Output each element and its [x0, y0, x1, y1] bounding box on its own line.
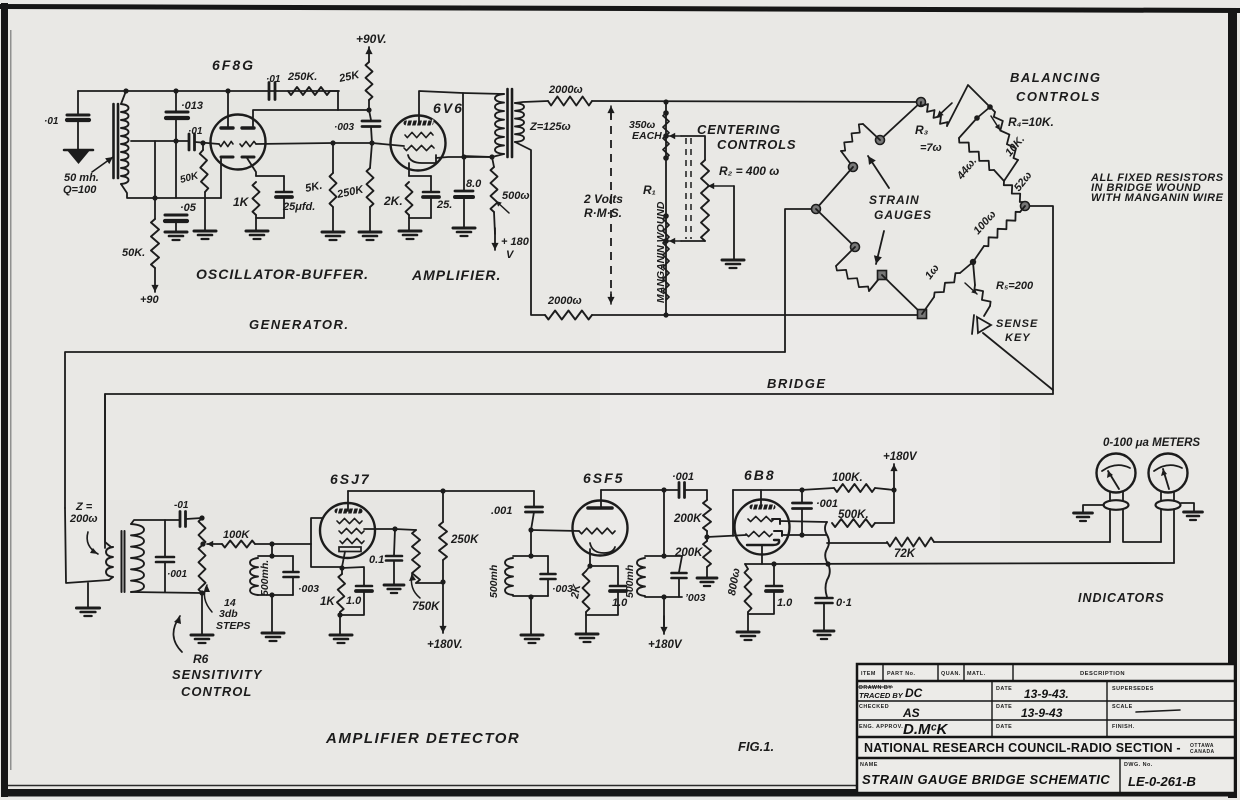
- node diode1 / .001C: [799, 532, 804, 537]
- svg-text:6V6: 6V6: [433, 100, 464, 116]
- label 14: [224, 597, 236, 609]
- svg-text:1.0: 1.0: [346, 595, 362, 607]
- value label 2000 ohm bottom: [547, 295, 582, 307]
- arrow pointing to 750K: [409, 574, 420, 598]
- arrow R4 wiper: [991, 116, 1000, 130]
- svg-text:+90V.: +90V.: [356, 32, 387, 46]
- svg-text:ITEM: ITEM: [861, 671, 876, 677]
- svg-text:·01: ·01: [188, 126, 203, 137]
- node gauge2 lower: [878, 271, 887, 280]
- label FIG.1.: [738, 739, 774, 754]
- node 250K bottom: [440, 579, 445, 584]
- svg-text:-01: -01: [174, 500, 189, 511]
- resistor R6 sensitivity pot: [199, 518, 206, 593]
- svg-text:SENSITIVITY: SENSITIVITY: [172, 667, 263, 682]
- node R5 junction: [970, 259, 976, 265]
- node tank1 bottom: [269, 592, 274, 597]
- node 1.0 top (6B8): [771, 561, 776, 566]
- inductor 500mh tank3: [637, 558, 645, 596]
- sheet border frame bottom: [1, 786, 1237, 797]
- ground M2: [1184, 512, 1203, 520]
- arrow +180V (6B8): [890, 464, 897, 488]
- node right grid / 5K: [330, 140, 335, 145]
- svg-text:’003: ’003: [685, 592, 706, 604]
- capacitor .001 (coupling A): [526, 507, 543, 512]
- svg-text:GAUGES: GAUGES: [874, 208, 932, 222]
- svg-text:D.MᶜK: D.MᶜK: [903, 721, 949, 738]
- field TRACED BY: [859, 691, 904, 700]
- wire bridge right output down: [1025, 206, 1053, 394]
- value label 200K 2: [674, 547, 703, 559]
- title block table: [857, 664, 1235, 793]
- svg-text:NATIONAL RESEARCH COUNCIL-RADI: NATIONAL RESEARCH COUNCIL-RADIO SECTION …: [864, 741, 1181, 755]
- node tank2 bottom: [528, 594, 533, 599]
- svg-text:+180V: +180V: [648, 639, 683, 651]
- svg-text:200K: 200K: [673, 513, 702, 525]
- section label AMPLIFIER.: [411, 267, 501, 283]
- wire grid node to 6V6: [372, 143, 404, 146]
- wire .001C bottom lead: [801, 509, 803, 536]
- value label 250K.: [287, 71, 317, 83]
- wire tank3 supply lead: [663, 597, 665, 626]
- wire cathode rail to meter 2: [774, 563, 1174, 564]
- wire 6F8G left plate lead: [227, 91, 229, 128]
- svg-text:R₅=200: R₅=200: [996, 280, 1034, 292]
- node 6V6 grid: [369, 140, 374, 145]
- capacitor .003 tank2: [541, 574, 556, 579]
- resistor 750K: [412, 530, 420, 583]
- wire tank1 top rail: [258, 555, 293, 557]
- wire 25 bottom: [430, 197, 432, 218]
- 6SF5 cathode: [590, 543, 615, 553]
- wire cathode rail (6B8): [745, 563, 774, 565]
- resistor 200K (grid stopper): [703, 500, 711, 531]
- wire 2K to ground (6SF5): [585, 612, 587, 633]
- title NRC: [864, 741, 1181, 755]
- ground below T3: [76, 608, 99, 616]
- label Q=100: [63, 184, 97, 196]
- entry date 2: [1021, 706, 1063, 720]
- label 52 ohm: [1012, 170, 1035, 194]
- node 6SF5 cathode: [587, 563, 592, 568]
- arrow R2 wiper: [708, 183, 734, 189]
- label GAUGES: [874, 208, 932, 222]
- wire screen node to T2: [464, 156, 492, 157]
- node 250K top: [440, 488, 445, 493]
- wire 6SJ7 plate rail: [348, 490, 534, 492]
- tube 6B8 envelope: [735, 500, 790, 555]
- capacitor .01 (detector input): [180, 512, 186, 527]
- resistor 44 ohm: [959, 138, 994, 170]
- field DATE 3: [996, 724, 1012, 730]
- svg-text:200ω: 200ω: [69, 513, 98, 525]
- svg-text:100K.: 100K.: [832, 472, 863, 484]
- capacitor .003: [362, 121, 380, 127]
- wire C.01a to top rail: [77, 91, 79, 115]
- wire bridge output to detector (lower): [105, 394, 1053, 548]
- capacitor 25: [423, 192, 439, 197]
- arrow wiper 500 ohm: [496, 201, 509, 213]
- resistor R1 lower section manganin wound: [663, 216, 669, 300]
- 6B8 grid row1: [748, 516, 774, 521]
- label STRAIN: [869, 193, 920, 207]
- resistor 100K (6B8 load): [834, 484, 875, 492]
- dashed gang link: [686, 138, 691, 239]
- value label .001 C: [816, 498, 838, 510]
- gauge arm 2 lead b: [836, 247, 855, 266]
- value label 50K.: [122, 247, 145, 259]
- wire key to output corner: [983, 333, 1053, 390]
- resistor 500 ohm: [491, 167, 498, 212]
- resistor 2K: [406, 182, 413, 215]
- svg-text:+180V.: +180V.: [427, 639, 463, 651]
- svg-text:·001: ·001: [672, 471, 694, 483]
- svg-text:LE-0-261-B: LE-0-261-B: [1128, 774, 1196, 789]
- meter M1 0-100ua: [1097, 454, 1136, 493]
- wire M2 right leg: [1173, 509, 1175, 563]
- wire 1 ohm lead a: [960, 262, 973, 273]
- node bridge bottom corner: [918, 310, 927, 319]
- node R6 wiper: [200, 541, 205, 546]
- wire T1 bottom to lower rail: [121, 184, 221, 198]
- svg-text:BALANCING: BALANCING: [1010, 70, 1102, 85]
- ground below 5K: [322, 232, 344, 240]
- wire C.003 to grid node: [371, 127, 372, 143]
- wire 1K bottom rail: [256, 215, 284, 218]
- svg-text:CENTERING: CENTERING: [697, 122, 781, 137]
- wire 44 to 52 ohm: [994, 170, 1004, 181]
- value label 2000 ohm top: [548, 84, 583, 96]
- section label OSCILLATOR-BUFFER.: [196, 266, 369, 282]
- value label 1K: [233, 195, 250, 209]
- wire tank1 cap leg bottom: [292, 577, 294, 595]
- svg-text:AS: AS: [902, 706, 920, 720]
- svg-text:250K: 250K: [450, 534, 479, 546]
- label R2 = 400 ohm: [719, 164, 779, 178]
- svg-text:500mh: 500mh: [624, 565, 636, 598]
- resistor R5 200: [974, 285, 990, 306]
- svg-text:R₂ = 400 ω: R₂ = 400 ω: [719, 164, 779, 178]
- 6B8 grid row2: [746, 531, 772, 536]
- entry drawing name: [862, 772, 1110, 787]
- wire 2K bottom rail: [409, 215, 431, 218]
- resistor 72K: [887, 538, 934, 547]
- wire C.01b to 6F8G grid: [195, 142, 219, 144]
- label BALANCING: [1010, 70, 1102, 85]
- svg-text:6SF5: 6SF5: [583, 470, 624, 486]
- wire 100K right lead: [875, 488, 894, 490]
- ground (filled triangle) below C.01a: [64, 149, 93, 164]
- arrow pointing to R6 steps: [204, 585, 212, 612]
- wire tap upper to R2: [681, 136, 705, 160]
- wire 8.0 feed: [463, 157, 465, 190]
- wire M2 ground stub: [1181, 503, 1194, 511]
- value label 750K: [412, 601, 440, 613]
- wire 250K to corner: [330, 90, 338, 92]
- wire T2 primary bottom: [492, 154, 504, 167]
- label 10K.: [1003, 133, 1027, 159]
- 6B8 diode plate a: [772, 519, 780, 524]
- wire 1.0 bottom (6SF5): [586, 591, 618, 615]
- ground below 1K: [246, 231, 268, 239]
- value label 250K (load): [450, 534, 479, 546]
- wire detector output bus: [825, 522, 830, 597]
- ground below 6B8 cathode: [737, 632, 759, 640]
- entry date 1: [1024, 687, 1069, 701]
- resistor R1 upper section 350 ohm each: [663, 113, 669, 158]
- wire plate feed: [338, 109, 369, 111]
- value label 25ufd: [282, 201, 315, 213]
- svg-text:FINISH.: FINISH.: [1112, 724, 1135, 730]
- node bus / cathode return: [825, 561, 830, 566]
- wire 800 feed: [745, 564, 748, 569]
- wire grid node to 6SF5: [531, 530, 579, 531]
- svg-text:750K: 750K: [412, 601, 440, 613]
- capacitor 0.1: [386, 556, 402, 561]
- label CENTERING: [697, 122, 781, 137]
- node 6SJ7 cathode: [339, 565, 344, 570]
- label R3: [915, 123, 929, 137]
- node R4 left: [974, 115, 980, 121]
- value label .001 (coupling A): [491, 505, 512, 517]
- wire tank2 drop: [530, 530, 532, 556]
- wire 1.0 branch (6SJ7): [342, 567, 364, 585]
- inductor T3 secondary: [131, 524, 144, 592]
- svg-text:CONTROLS: CONTROLS: [717, 137, 796, 152]
- gauge arm 1 lead c: [841, 151, 853, 167]
- note all fixed resistors line2: [1091, 182, 1201, 194]
- svg-text:+180V: +180V: [883, 451, 918, 463]
- field FINISH.: [1112, 724, 1135, 730]
- label SENSE: [996, 318, 1038, 330]
- gauge arm 2 lead a: [816, 209, 855, 247]
- node R1 top rail: [663, 99, 668, 104]
- capacitor 8.0: [455, 191, 473, 197]
- sheet border frame right: [1228, 8, 1237, 798]
- 6F8G left plate: [221, 126, 233, 129]
- supply label +180V (6B8): [883, 451, 918, 463]
- 6F8G left cathode: [221, 156, 233, 159]
- svg-text:CHECKED: CHECKED: [859, 704, 889, 710]
- wire 6F8G cathode lead: [247, 158, 256, 176]
- svg-text:13-9-43.: 13-9-43.: [1024, 687, 1069, 701]
- field ENG. APPROV.: [859, 724, 903, 730]
- value label 8.0: [466, 178, 482, 190]
- svg-text:=7ω: =7ω: [920, 142, 942, 154]
- strike through DRAWN BY: [858, 686, 893, 688]
- field DWG. No.: [1124, 762, 1153, 768]
- value label 100K: [223, 529, 250, 541]
- node R1 dot b: [663, 133, 669, 139]
- label 100 ohm: [971, 209, 998, 238]
- wire rejoin to 52 ohm: [1004, 160, 1018, 181]
- resistor 1K: [253, 182, 260, 215]
- transformer T2 core: [508, 89, 513, 157]
- wire 6V6 cathode lead: [408, 163, 410, 176]
- wire 6B8 diode2 lead: [780, 521, 827, 522]
- wire 6V6 screen lead: [436, 157, 492, 158]
- svg-text:DATE: DATE: [996, 704, 1012, 710]
- field CHECKED: [859, 704, 889, 710]
- label 50 mh.: [64, 172, 99, 184]
- wire 72K to meter 1: [934, 541, 1110, 543]
- value label .01 (grid cap): [188, 126, 203, 137]
- wire 100 ohm lead b: [973, 246, 984, 262]
- ground below tank1: [262, 633, 284, 641]
- inductor 500mh tank1: [250, 558, 258, 595]
- svg-text:DC: DC: [905, 686, 923, 700]
- svg-text:GENERATOR.: GENERATOR.: [249, 317, 349, 332]
- wire tank2 bottom rail: [513, 595, 548, 597]
- wire T1 tap vertical: [154, 141, 156, 198]
- wire 6SF5 cathode lead: [589, 549, 591, 566]
- svg-text:R₃: R₃: [915, 123, 929, 137]
- node tank3 top rail: [661, 553, 666, 558]
- wire 1.0 bottom (6SJ7): [340, 591, 364, 615]
- resistor 500K: [832, 519, 875, 527]
- node screen / 8.0 cap: [461, 154, 466, 159]
- wire tank3 bottom rail: [645, 596, 682, 598]
- resistor 1 ohm: [934, 273, 960, 297]
- node 25K / plate feed: [366, 107, 371, 112]
- 6SF5 grid: [579, 528, 615, 534]
- 6B8 cathode scroll: [747, 540, 779, 545]
- svg-text:CONTROLS: CONTROLS: [1016, 89, 1101, 104]
- svg-text:DWG. No.: DWG. No.: [1124, 762, 1153, 768]
- label STEPS: [216, 620, 250, 632]
- value label 0.1: [369, 554, 384, 566]
- wire tap lower to R2: [681, 240, 705, 242]
- svg-text:500ω: 500ω: [502, 190, 530, 202]
- capacitor 0.1 (output): [816, 598, 833, 603]
- value label .01 (left cap): [44, 116, 59, 127]
- gauge arm 2 lead d: [882, 275, 922, 314]
- wire 5K feed: [332, 143, 334, 173]
- node R1 dot e: [663, 238, 669, 244]
- transformer T1 core: [114, 104, 119, 178]
- ground below 200K: [697, 578, 717, 586]
- node pot top: [489, 154, 494, 159]
- label 500mh tank3: [624, 565, 636, 598]
- value label .013: [181, 100, 203, 112]
- svg-text:INDICATORS: INDICATORS: [1078, 591, 1165, 605]
- ground below 250K leak: [359, 232, 381, 240]
- svg-text:.001: .001: [491, 505, 512, 517]
- wire 200K2 to ground: [706, 567, 708, 578]
- label =7 ohm: [920, 142, 942, 154]
- label SENSITIVITY: [172, 667, 263, 682]
- wire R4 split: [959, 107, 990, 138]
- wire 250K leak to ground: [369, 207, 371, 232]
- label R4=10K.: [1008, 115, 1054, 129]
- svg-text:WITH MANGANIN WIRE: WITH MANGANIN WIRE: [1091, 192, 1224, 204]
- node tank1 top: [269, 553, 274, 558]
- svg-text:2 Volts: 2 Volts: [583, 192, 623, 206]
- 6F8G right grid: [240, 141, 256, 146]
- svg-text:·001: ·001: [816, 498, 838, 510]
- wire tank1 drop: [271, 544, 273, 556]
- label MANGANIN WOUND: [655, 201, 667, 303]
- 6V6 grid 2: [404, 145, 434, 150]
- capacitor .003 tank3: [672, 573, 687, 578]
- resistor 1K (6SJ7): [337, 574, 345, 612]
- svg-text:ENG. APPROV.: ENG. APPROV.: [859, 724, 903, 730]
- wire 8.0 to ground: [463, 197, 465, 228]
- label CONTROLS: [717, 137, 796, 152]
- node R4 top: [987, 104, 993, 110]
- capacitor 25ufd: [276, 192, 292, 197]
- label 3db: [219, 608, 238, 620]
- transformer T3 core: [122, 531, 125, 592]
- wire 100K to grid junction: [255, 543, 311, 545]
- svg-text:TRACED BY: TRACED BY: [859, 691, 904, 700]
- tube 6SJ7 envelope: [320, 503, 375, 558]
- label 1 ohm: [923, 262, 942, 281]
- wire 500 ohm to +180: [494, 212, 495, 234]
- wire 25 top: [430, 176, 432, 191]
- node 1K bottom: [337, 612, 342, 617]
- sense key symbol: [972, 315, 991, 334]
- supply label +90: [140, 294, 160, 306]
- wire R4 element lead: [990, 107, 995, 112]
- svg-text:·003: ·003: [334, 122, 354, 133]
- node gauge2 upper: [851, 243, 860, 252]
- svg-text:DATE: DATE: [996, 724, 1012, 730]
- value label 800 ohm: [726, 567, 743, 596]
- svg-text:Z =: Z =: [75, 501, 93, 513]
- tube label 6B8: [744, 467, 776, 483]
- resistor R4 10K element: [994, 112, 1018, 160]
- node tap wire / C.013: [173, 138, 178, 143]
- svg-text:STRAIN GAUGE BRIDGE SCHEMATIC: STRAIN GAUGE BRIDGE SCHEMATIC: [862, 772, 1110, 787]
- svg-text:250K.: 250K.: [287, 71, 317, 83]
- tube label 6SF5: [583, 470, 624, 486]
- tube 6SF5 envelope: [573, 501, 628, 556]
- entry DC: [905, 686, 923, 700]
- svg-text:DESCRIPTION: DESCRIPTION: [1080, 671, 1125, 677]
- node bridge left corner: [812, 205, 821, 214]
- arrow pointing to T3: [87, 532, 98, 554]
- value label .01 (detector): [174, 500, 189, 511]
- wire tank1 cap leg top: [292, 556, 294, 571]
- resistor 5K: [330, 173, 337, 207]
- capacitor .01 (left): [67, 115, 89, 120]
- capacitor 1.0 (6SF5): [610, 586, 626, 591]
- svg-text:Q=100: Q=100: [63, 184, 97, 196]
- svg-text:6B8: 6B8: [744, 467, 776, 483]
- svg-text:2K.: 2K.: [383, 194, 403, 208]
- svg-text:·05: ·05: [180, 202, 197, 214]
- node grid rail / .001C: [799, 487, 804, 492]
- arrow strain gauge 2: [874, 231, 884, 264]
- resistor R2 400 ohm: [701, 160, 709, 241]
- header MATL.: [967, 671, 986, 677]
- wire grid leak stub: [202, 143, 204, 150]
- 6V6 grid 1: [405, 132, 433, 137]
- capacitor .013: [166, 112, 188, 118]
- 6B8 diode plate b: [774, 531, 782, 536]
- wire 6B8 cathode lead: [761, 545, 763, 564]
- wire top bridge rail: [592, 101, 921, 102]
- wire lower bridge output into T3: [105, 394, 113, 547]
- wire C.05 to ground: [175, 221, 177, 232]
- value label 200K 1: [673, 513, 702, 525]
- capacitor 1.0 (6B8): [766, 586, 782, 591]
- wire grid node to 6B8: [707, 535, 746, 537]
- node top rail / cap C.013 top: [173, 88, 178, 93]
- svg-text:25.: 25.: [436, 199, 452, 211]
- resistor R3: [921, 102, 948, 126]
